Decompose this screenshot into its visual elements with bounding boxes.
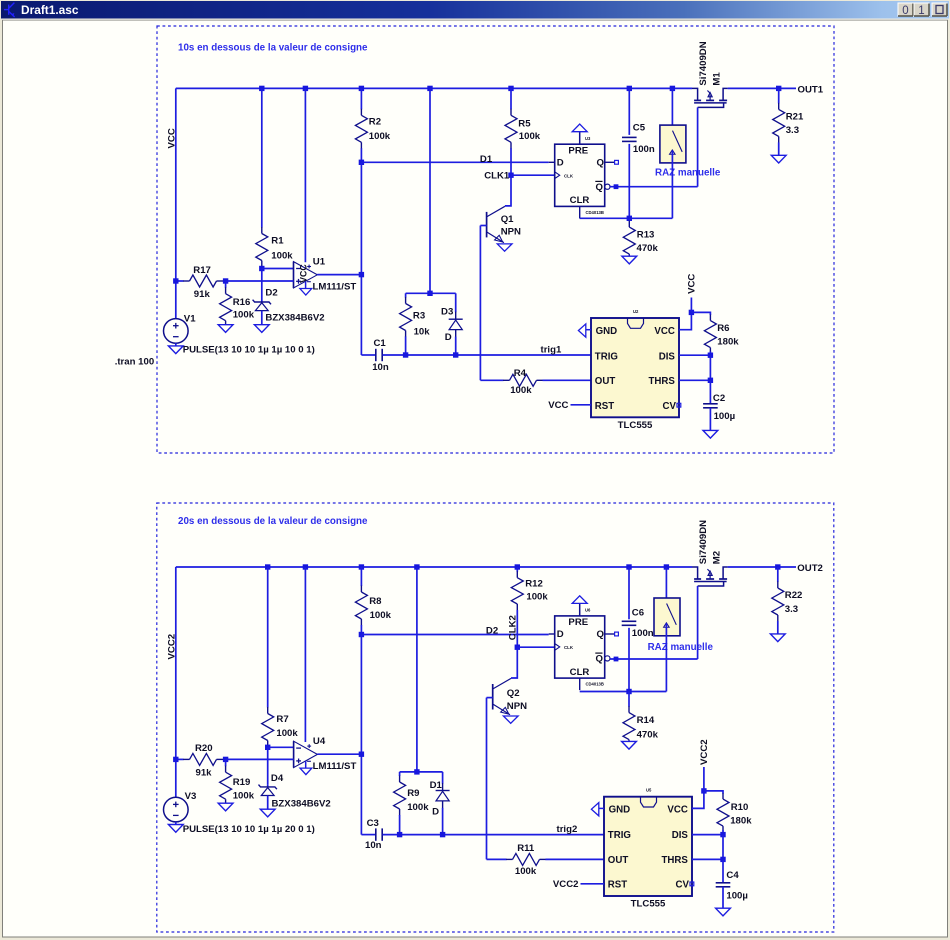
wire corner to R4 (480, 379, 503, 381)
svg-text:TRIG: TRIG (608, 830, 631, 841)
junction VCC node (689, 310, 694, 315)
svg-text:100µ: 100µ (714, 411, 736, 422)
ground under R21 (771, 155, 786, 163)
svg-text:100k: 100k (526, 592, 548, 603)
wire R1 to U1 inverting input (262, 268, 294, 270)
wire VCC left rail (175, 88, 177, 318)
svg-text:100n: 100n (633, 144, 655, 155)
svg-text:D: D (557, 629, 564, 640)
svg-text:Q2: Q2 (507, 688, 520, 699)
svg-text:C3: C3 (367, 818, 379, 829)
svg-text:PULSE(13 10 10 1µ 1µ 20 0 1): PULSE(13 10 10 1µ 1µ 20 0 1) (183, 824, 315, 835)
svg-text:.tran 100: .tran 100 (115, 356, 154, 367)
junction trig1/R3 (403, 352, 408, 357)
resistor R8 (360, 567, 362, 586)
ground under C4 (716, 908, 731, 916)
svg-text:VCC: VCC (167, 128, 178, 148)
svg-text:1: 1 (918, 5, 924, 17)
ground under V1 (175, 343, 177, 346)
svg-text:D: D (445, 332, 452, 343)
svg-text:C2: C2 (713, 393, 725, 404)
junction DIS node (708, 353, 713, 358)
svg-text:VCC: VCC (548, 400, 568, 411)
svg-text:D4: D4 (271, 773, 284, 784)
svg-text:TLC555: TLC555 (631, 899, 666, 910)
svg-text:BZX384B6V2: BZX384B6V2 (265, 312, 324, 323)
wire DIS2 to THRS2 (722, 835, 724, 860)
svg-text:R5: R5 (518, 118, 531, 129)
svg-text:OUT1: OUT1 (798, 84, 824, 95)
junction DIS2 node (720, 832, 725, 837)
wire CLR net horizontal (580, 217, 673, 219)
junction U4 output node (359, 752, 364, 757)
svg-text:R12: R12 (525, 579, 543, 590)
svg-text:GND: GND (609, 805, 631, 816)
svg-text:R14: R14 (637, 715, 655, 726)
wire R3/D3 top horizontal (406, 292, 456, 294)
wire switch2 bottom to CLR2 wire (665, 623, 667, 691)
resistor R11 (horizontal) (513, 853, 540, 865)
resistor R12 (516, 567, 518, 572)
svg-text:RAZ manuelle: RAZ manuelle (648, 642, 714, 653)
voltage source V3 (164, 797, 189, 822)
wire net D2 from R8 to flip-flop D pin (361, 634, 548, 636)
wire C4 to ground (722, 887, 724, 909)
svg-text:100k: 100k (276, 728, 298, 739)
svg-text:THRS: THRS (662, 855, 689, 866)
wire U4 output to vertical node (317, 753, 361, 755)
wire CLR2 net horizontal (580, 691, 667, 693)
MOSFET M2 gate wire down to Qbar2 net (697, 586, 699, 659)
wire THRS2 pin (692, 858, 723, 860)
capacitor C6 (622, 620, 637, 622)
window title bar (1, 1, 949, 19)
svg-text:100k: 100k (515, 866, 537, 877)
svg-text:PRE: PRE (568, 617, 588, 628)
junction OUT1/R21 (776, 86, 781, 91)
svg-text:BZX384B6V2: BZX384B6V2 (272, 798, 331, 809)
svg-text:THRS: THRS (649, 376, 676, 387)
flip-flop PRE pin stub and arrow (579, 603, 581, 616)
junction CLK2 node (515, 645, 520, 650)
svg-text:TRIG: TRIG (595, 351, 618, 362)
wire C5 bottom to CLR node (628, 144, 630, 218)
svg-text:3.3: 3.3 (785, 604, 798, 615)
svg-text:VCC: VCC (299, 264, 309, 283)
svg-text:VCC2: VCC2 (699, 739, 710, 765)
manual reset switch (RAZ) body (654, 598, 680, 636)
flip-flop CLK input triangle and tiny label (555, 644, 560, 651)
svg-text:NPN: NPN (501, 227, 521, 238)
svg-text:RST: RST (608, 880, 627, 891)
junction trig1/D3 (453, 352, 458, 357)
manual reset switch (RAZ) body (660, 125, 686, 163)
capacitor C5 (622, 136, 637, 138)
svg-text:LM111/ST: LM111/ST (313, 281, 357, 292)
wire VCC2 left rail (175, 567, 177, 797)
voltage source V1 (164, 319, 189, 344)
svg-text:M2: M2 (712, 551, 723, 564)
op-amp U4 LM111/ST body (293, 741, 295, 767)
wire THRS to C2 (709, 380, 711, 404)
svg-text:OUT: OUT (595, 376, 616, 387)
svg-text:CD4013B: CD4013B (586, 682, 604, 687)
transistor Q2 NPN body (492, 684, 494, 710)
junction bus2/switch2 (664, 564, 669, 569)
svg-text:10n: 10n (372, 362, 389, 373)
ground under V3 (175, 822, 177, 825)
capacitor C3 (375, 828, 377, 840)
wire CLK2 to flip-flop CLK pin (517, 646, 554, 648)
VCC flag stub (690, 298, 692, 313)
junction CLK1 node (508, 173, 513, 178)
wire CLK2 node down to Q2 collector (511, 647, 517, 678)
svg-text:DIS: DIS (659, 351, 676, 362)
svg-text:470k: 470k (637, 243, 659, 254)
wire VCC2 node to R10 (704, 791, 723, 794)
D flip-flop box (CD4013B) (555, 616, 605, 678)
junction R20/R19/U4+ node (223, 757, 228, 762)
junction R2 bottom / net D1 (359, 160, 364, 165)
junction bus/U1 supply (303, 86, 308, 91)
wire trig2 horizontal to TLC555 TRIG (383, 834, 604, 836)
MOSFET gate wire down to Qbar net (697, 107, 699, 186)
junction trig2/R9 (397, 832, 402, 837)
wire to U4 non-inverting input (226, 758, 294, 760)
junction bus/switch (670, 86, 675, 91)
svg-text:D: D (432, 807, 439, 818)
svg-text:CLK: CLK (564, 645, 574, 650)
svg-text:Q: Q (597, 629, 605, 640)
wire CLK1 to flip-flop CLK pin (511, 174, 555, 176)
op-amp U1 V- pin stub and ground arrow (305, 281, 307, 288)
resistor R4 (horizontal) (510, 374, 537, 386)
svg-text:C1: C1 (374, 338, 387, 349)
wire TLC2 VCC pin to VCC2 node (692, 791, 704, 809)
wire R2-bottom down to op-amp output node (360, 162, 362, 355)
junction R17/R16/U1+ node (223, 278, 228, 283)
svg-text:OUT2: OUT2 (797, 563, 823, 574)
wire C6 bottom to CLR2 node (628, 628, 630, 692)
svg-text:100k: 100k (369, 131, 391, 142)
svg-text:91k: 91k (194, 289, 211, 300)
wire VCC2 bus (176, 566, 692, 568)
flip-flop D pin stub (549, 633, 555, 635)
svg-text:R16: R16 (233, 297, 251, 308)
svg-text:R19: R19 (233, 777, 251, 788)
wire U4 minus-node down to zener D4 (267, 747, 269, 784)
svg-text:VCC: VCC (667, 805, 687, 816)
svg-text:R2: R2 (369, 117, 381, 128)
zener diode D4 (267, 784, 269, 787)
resistor R19 (225, 759, 227, 766)
svg-text:R13: R13 (637, 230, 655, 241)
svg-text:R20: R20 (195, 743, 213, 754)
svg-text:CLK1: CLK1 (484, 171, 510, 182)
capacitor C6 wire from bus (628, 567, 630, 619)
svg-text:470k: 470k (637, 730, 659, 741)
capacitor C4 (716, 882, 731, 884)
wire R9/D1 top horizontal (400, 771, 443, 773)
junction at Qbar pin (614, 184, 619, 189)
svg-text:CV: CV (676, 880, 690, 891)
junction OUT2/R22 (775, 564, 780, 569)
svg-text:R11: R11 (517, 843, 535, 854)
svg-text:trig2: trig2 (557, 824, 578, 835)
op-amp U1 LM111/ST body (293, 262, 295, 288)
timer IC TLC555 body (591, 318, 679, 417)
svg-text:R3: R3 (413, 311, 425, 322)
wire switch bottom to CLR wire (671, 150, 673, 218)
MOSFET symbol body (692, 567, 698, 579)
svg-text:VCC: VCC (687, 274, 698, 294)
svg-text:D1: D1 (430, 780, 443, 791)
flip-flop CLK input triangle and tiny label (555, 172, 560, 179)
resistor R17 (horizontal) (176, 280, 184, 282)
svg-text:100k: 100k (233, 790, 255, 801)
ground under R22 (770, 634, 785, 642)
flip-flop D pin stub (549, 161, 555, 163)
svg-text:180k: 180k (717, 337, 739, 348)
svg-text:CLK2: CLK2 (508, 615, 519, 640)
wire switch top feed (671, 88, 673, 130)
svg-text:Q: Q (597, 157, 605, 168)
junction bus2/R12 (515, 564, 520, 569)
junction bus/R1 (259, 86, 264, 91)
svg-text:VCC2: VCC2 (553, 879, 579, 890)
junction VCC2 node (701, 788, 706, 793)
resistor R7 (267, 567, 269, 708)
wire THRS pin (679, 379, 710, 381)
svg-text:R6: R6 (717, 323, 729, 334)
svg-text:D2: D2 (486, 626, 498, 637)
svg-text:10s en dessous de la valeur de: 10s en dessous de la valeur de consigne (178, 43, 368, 54)
junction R7/U4- node (265, 745, 270, 750)
svg-text:U1: U1 (313, 257, 326, 268)
flip-flop PRE pin stub and arrow (579, 132, 581, 145)
op-amp U4 V- pin stub and ground arrow (305, 761, 307, 768)
junction bus/R2 (359, 86, 364, 91)
svg-text:100k: 100k (271, 251, 293, 262)
window icon (transistor glyph) (4, 3, 15, 17)
resistor R14 (628, 692, 630, 707)
svg-text:GND: GND (596, 326, 618, 337)
ground under D4 (260, 809, 275, 817)
svg-text:CLK: CLK (564, 173, 574, 178)
wire U1 minus-node to zener D2 (261, 269, 263, 300)
svg-text:D2: D2 (265, 287, 277, 298)
svg-text:0: 0 (902, 5, 908, 17)
svg-text:PRE: PRE (568, 145, 588, 156)
svg-text:C4: C4 (726, 870, 739, 881)
wire U1 output to vertical node (317, 274, 361, 276)
svg-text:D3: D3 (441, 306, 453, 317)
wire U1 supply from bus (304, 88, 306, 262)
flip-flop Qbar pin bubble (605, 656, 610, 661)
wire Q2 base down to R11 corner (486, 698, 488, 860)
resistor R21 (778, 88, 780, 103)
MOSFET symbol body (692, 88, 698, 100)
capacitor C2 (703, 403, 718, 405)
junction bus/R5 (508, 86, 513, 91)
svg-text:Q: Q (596, 654, 604, 665)
svg-text:U2: U2 (633, 309, 639, 314)
junction rail/R17 (173, 278, 178, 283)
flip-flop Q pin stub with open terminal (605, 161, 615, 163)
wire TLC VCC pin to VCC node (679, 312, 691, 329)
wire DIS to THRS (709, 355, 711, 380)
svg-text:M1: M1 (712, 72, 723, 86)
svg-text:U5: U5 (646, 788, 652, 793)
junction bus2/R8 (359, 564, 364, 569)
comment box: 20s section dashed border (157, 503, 834, 932)
wire from bus2 down to R9/D1 top node (416, 567, 418, 772)
timer IC TLC555 body (604, 797, 692, 896)
junction bus2/C6 (626, 564, 631, 569)
wire trig2 horizontal (left of C3) (361, 834, 375, 836)
wire C2 to ground (709, 408, 711, 431)
svg-text:D1: D1 (480, 154, 493, 165)
flip-flop CLR pin stub (579, 206, 581, 218)
TLC555 CV pin open terminal (690, 882, 694, 886)
ground under D2 (254, 325, 269, 333)
svg-text:100k: 100k (519, 131, 541, 142)
wire R7 to U4 inverting input (268, 746, 294, 748)
svg-text:CV: CV (663, 401, 677, 412)
svg-text:Draft1.asc: Draft1.asc (21, 3, 79, 17)
wire corner to R11 (487, 858, 507, 860)
capacitor C5 wire from bus (628, 88, 630, 134)
wire DIS2 pin to R10 bottom (692, 834, 723, 836)
wire Q1 base lead (480, 225, 486, 227)
ground under C2 (703, 430, 718, 438)
D flip-flop box (CD4013B) (555, 144, 605, 206)
svg-text:R9: R9 (407, 788, 419, 799)
wire from bus down to R3/D3 top node (429, 88, 431, 293)
svg-text:VCC: VCC (654, 326, 674, 337)
svg-text:RST: RST (595, 401, 614, 412)
svg-text:R22: R22 (785, 590, 803, 601)
svg-text:10n: 10n (365, 840, 382, 851)
TLC555 CV pin open terminal (677, 403, 681, 407)
resistor R10 (717, 799, 729, 826)
capacitor C1 (375, 349, 377, 361)
resistor R1 (261, 88, 263, 227)
junction CLR2/R14/C6 (626, 689, 631, 694)
svg-text:R10: R10 (731, 802, 749, 813)
junction R3-D3 top (427, 291, 432, 296)
svg-text:trig1: trig1 (541, 344, 562, 355)
resistor R5 (510, 88, 512, 109)
svg-text:R1: R1 (271, 235, 284, 246)
transistor Q1 NPN body (486, 212, 488, 238)
junction CLR/R13/C5 (627, 216, 632, 221)
wire MOSFET drain to OUT1 (728, 87, 796, 89)
transistor Q1 emitter ground flag (497, 244, 512, 251)
svg-text:DIS: DIS (672, 830, 689, 841)
svg-text:100k: 100k (370, 610, 392, 621)
svg-text:V3: V3 (185, 791, 197, 802)
wire THRS2 to C4 (722, 859, 724, 883)
svg-text:Q1: Q1 (501, 214, 514, 225)
comment box: 10s section dashed border (157, 26, 834, 453)
wire DIS pin to R6 bottom (679, 354, 710, 356)
svg-text:U4: U4 (313, 736, 326, 747)
junction bus2/R7 (265, 564, 270, 569)
svg-text:Si7409DN: Si7409DN (698, 520, 709, 564)
svg-text:U3: U3 (585, 136, 591, 141)
svg-text:U6: U6 (585, 608, 591, 613)
wire Q2 base lead (487, 697, 493, 699)
junction bus2/U4 supply (303, 564, 308, 569)
junction R8 bottom / net D2 (359, 632, 364, 637)
wire R8-bottom down to op-amp output node (360, 635, 362, 835)
junction THRS node (708, 378, 713, 383)
transistor Q2 emitter ground flag (503, 716, 518, 723)
svg-text:OUT: OUT (608, 855, 629, 866)
svg-text:R17: R17 (193, 265, 211, 276)
svg-text:10k: 10k (414, 326, 431, 337)
svg-text:180k: 180k (730, 816, 752, 827)
wire trig1 horizontal (left of C1) (361, 354, 375, 356)
svg-text:R8: R8 (369, 596, 382, 607)
wire to U1 non-inverting input (226, 280, 294, 282)
svg-text:LM111/ST: LM111/ST (313, 761, 357, 772)
svg-text:D: D (557, 157, 564, 168)
svg-text:V1: V1 (184, 314, 196, 325)
wire Q1 base down to R4 corner (479, 226, 481, 381)
resistor R6 (704, 321, 716, 348)
svg-text:CLR: CLR (570, 667, 590, 678)
resistor R13 (628, 218, 630, 221)
wire top VCC bus (176, 87, 692, 89)
junction R1/U1- node (259, 266, 264, 271)
ground under R16 (218, 325, 233, 333)
svg-text:91k: 91k (196, 767, 213, 778)
diode D1 (442, 772, 444, 784)
window buttons minimize/maximize/close (898, 3, 913, 16)
svg-text:CLR: CLR (570, 195, 590, 206)
wire Qbar2 net from bubble to MOSFET gate (610, 658, 698, 660)
resistor R20 (horizontal) (176, 758, 184, 760)
junction trig2/D1 (440, 832, 445, 837)
svg-text:Si7409DN: Si7409DN (698, 41, 709, 85)
junction THRS2 node (720, 857, 725, 862)
svg-text:100n: 100n (632, 628, 654, 639)
svg-text:Q: Q (596, 182, 604, 193)
svg-text:RAZ manuelle: RAZ manuelle (655, 167, 721, 178)
TLC555 GND pin left arrow flag (586, 329, 591, 331)
svg-text:C6: C6 (632, 608, 644, 619)
wire U4 supply from bus (304, 567, 306, 742)
svg-text:R7: R7 (276, 714, 288, 725)
junction bus/R3-D3 feed (427, 86, 432, 91)
wire trig1 horizontal to TLC555 TRIG (383, 354, 591, 356)
svg-text:NPN: NPN (507, 701, 527, 712)
VCC2 flag stub (703, 767, 705, 791)
wire CLK1 node down to Q1 collector (505, 175, 511, 206)
flip-flop CLR pin stub (579, 678, 581, 690)
wire Qbar net from bubble to MOSFET gate (610, 186, 698, 188)
junction rail2/R20 (173, 757, 178, 762)
svg-text:100k: 100k (407, 802, 429, 813)
ground under R13 (622, 256, 637, 264)
junction R9-D1 top (414, 769, 419, 774)
svg-text:R4: R4 (514, 368, 527, 379)
svg-text:100k: 100k (510, 385, 532, 396)
svg-text:100µ: 100µ (726, 890, 748, 901)
resistor R16 (225, 281, 227, 288)
